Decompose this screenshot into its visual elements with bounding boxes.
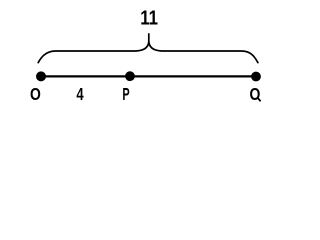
svg-text:O: O [249, 86, 260, 105]
wire: segment O to Q [41, 75, 256, 77]
curly brace spanning O to Q [38, 33, 258, 62]
svg-text:O: O [30, 86, 41, 105]
node O (endpoint dot) [36, 71, 46, 81]
svg-text:P: P [122, 86, 129, 105]
svg-text:4: 4 [76, 85, 84, 104]
node Q (endpoint dot) [251, 72, 261, 82]
node P (middle dot) [125, 71, 135, 81]
svg-text:11: 11 [140, 6, 158, 29]
